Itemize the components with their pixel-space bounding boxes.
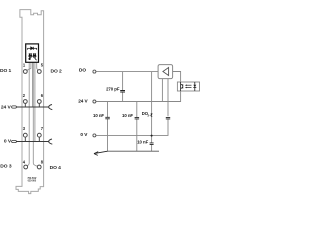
svg-text:3: 3 <box>23 126 26 131</box>
svg-text:DO 2: DO 2 <box>51 69 63 75</box>
svg-text:24 V: 24 V <box>78 99 88 104</box>
svg-text:4: 4 <box>23 160 26 165</box>
svg-text:025-000: 025-000 <box>28 179 37 182</box>
svg-text:10 nF: 10 nF <box>137 139 148 144</box>
svg-text:270 pF: 270 pF <box>106 86 120 91</box>
svg-text:DO: DO <box>79 68 86 73</box>
svg-text:DO 1: DO 1 <box>0 68 12 74</box>
svg-text:0 V: 0 V <box>80 132 88 137</box>
svg-text:10 nF: 10 nF <box>93 113 104 118</box>
svg-text:10 nF: 10 nF <box>122 113 133 118</box>
svg-text:DO 3: DO 3 <box>0 163 12 169</box>
svg-text:2: 2 <box>23 93 26 98</box>
svg-text:1: 1 <box>23 63 26 68</box>
svg-text:DO 4: DO 4 <box>50 165 62 171</box>
svg-text:2-4: 2-4 <box>148 113 152 117</box>
svg-text:24 V: 24 V <box>1 105 12 111</box>
svg-text:0 V: 0 V <box>4 138 12 144</box>
